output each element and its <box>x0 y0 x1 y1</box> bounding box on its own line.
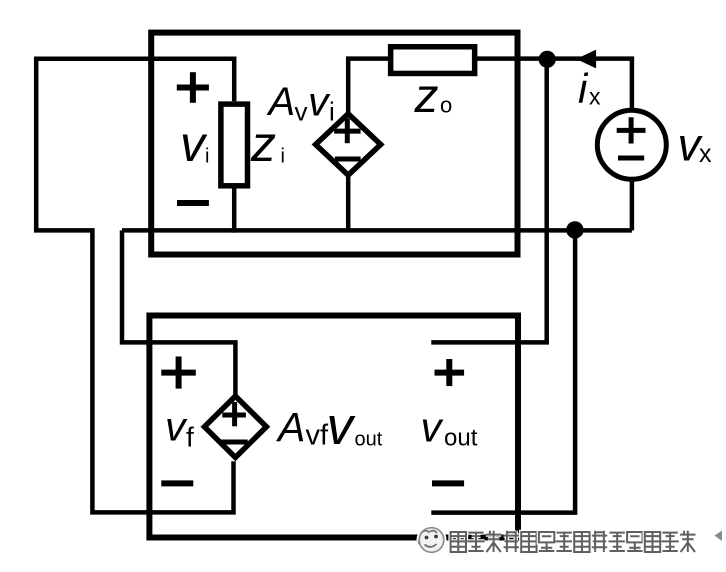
watermark text (stylized) <box>451 531 696 552</box>
wire Av diamond top / Zo line to corner <box>348 59 632 114</box>
terminal plus vout <box>435 370 465 376</box>
arrow ix (pointing left) <box>576 50 596 69</box>
wire node B horizontal <box>122 228 632 233</box>
svg-text:v: v <box>180 116 208 172</box>
dependent source Av*vi (diamond) <box>316 114 381 175</box>
svg-text:o: o <box>440 92 452 117</box>
watermark arrow right <box>715 531 723 542</box>
wire node2 down to vout- <box>431 230 575 512</box>
terminal minus vf <box>161 480 193 486</box>
terminal minus vi <box>177 200 209 206</box>
dependent source Avf*vout (diamond) <box>204 396 266 457</box>
source Vx (circle) <box>597 110 666 179</box>
node dot top (output node) <box>539 51 556 68</box>
svg-text:x: x <box>589 84 601 110</box>
watermark logo <box>418 527 445 554</box>
resistor Zi <box>221 104 248 186</box>
terminal minus vout <box>432 480 464 486</box>
Av diamond minus <box>335 157 361 162</box>
wire vf top branch <box>122 230 235 396</box>
svg-text:v: v <box>308 78 331 124</box>
svg-text:A: A <box>267 80 296 124</box>
watermark <box>418 527 722 554</box>
svg-text:i: i <box>205 146 209 168</box>
node dot bottom <box>566 221 583 238</box>
Vx plus <box>617 128 646 133</box>
svg-text:A: A <box>275 404 305 450</box>
Avf diamond plus <box>222 413 246 418</box>
svg-text:vf: vf <box>306 420 330 452</box>
svg-text:z: z <box>250 116 276 172</box>
svg-text:f: f <box>186 421 194 452</box>
svg-text:out: out <box>444 424 478 451</box>
amplifier box (top) <box>151 33 517 255</box>
svg-text:i: i <box>329 97 335 127</box>
wire Vx bottom stub <box>630 180 635 231</box>
svg-text:v: v <box>327 397 357 456</box>
svg-text:v: v <box>421 403 445 450</box>
svg-text:i: i <box>281 146 285 168</box>
svg-text:out: out <box>355 429 383 451</box>
svg-text:x: x <box>699 140 712 168</box>
Vx minus <box>618 156 644 161</box>
svg-text:v: v <box>165 404 188 450</box>
wire node1 down to vout+ <box>431 59 546 342</box>
wire input loop left <box>36 59 234 513</box>
svg-text:v: v <box>295 97 308 127</box>
Av diamond plus <box>334 129 361 134</box>
feedback network box (bottom) <box>149 316 518 538</box>
svg-text:z: z <box>414 70 439 123</box>
Avf diamond minus <box>222 440 248 445</box>
terminal plus vf <box>161 370 196 376</box>
wire Zi bottom stub <box>232 189 237 233</box>
resistor Zo <box>391 47 475 74</box>
wire Av diamond bottom stub <box>346 175 351 230</box>
terminal plus vi <box>177 85 209 91</box>
